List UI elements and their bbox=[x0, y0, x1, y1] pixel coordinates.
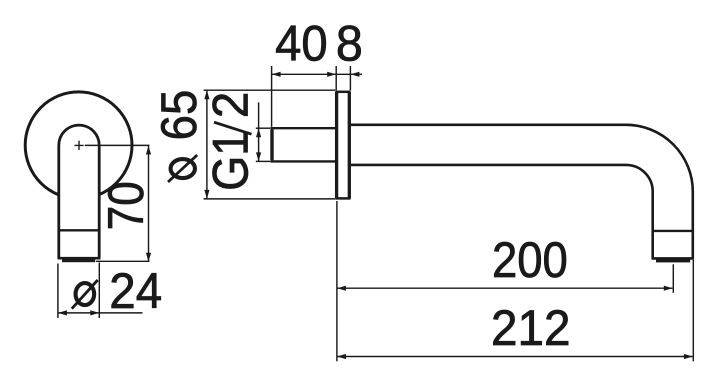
tube separation line side bbox=[653, 230, 693, 232]
dimension line 70 bbox=[148, 146, 150, 261]
svg-text:70: 70 bbox=[98, 181, 154, 230]
diameter symbol of 24 bbox=[76, 283, 95, 305]
extension line right of o24 dim bbox=[98, 263, 100, 319]
arrowhead G1/2 down bbox=[256, 152, 261, 161]
extension line 8 dim left bbox=[335, 66, 337, 90]
extension line o65 top bbox=[204, 89, 336, 91]
spout tube front view bbox=[59, 125, 99, 258]
arrowhead 212 right bbox=[684, 354, 693, 359]
extension line bottom of 70 dim bbox=[96, 260, 150, 262]
slash of G1/2 bbox=[214, 122, 252, 134]
wall flange side view bbox=[337, 92, 350, 199]
dimension line 40 and 8 bbox=[272, 73, 362, 75]
arrowhead 70 down bbox=[146, 253, 151, 262]
extension line 8 dim right bbox=[349, 66, 351, 90]
nipple top edge bbox=[270, 127, 335, 129]
extension line 200 right bbox=[672, 264, 674, 293]
threaded nipple side view bbox=[270, 129, 273, 160]
extension line G1/2 bottom bbox=[256, 160, 270, 162]
svg-text:212: 212 bbox=[491, 301, 570, 356]
extension line G1/2 top bbox=[256, 127, 270, 129]
dimension line 200 bbox=[337, 287, 673, 289]
extension line o65 bottom bbox=[204, 198, 336, 200]
spout tube side view top line and outer bend bbox=[351, 125, 693, 259]
dimension line o24 bbox=[58, 312, 143, 314]
svg-text:24: 24 bbox=[109, 264, 162, 319]
extension line 40 dim left bbox=[271, 66, 273, 127]
svg-text:G1: G1 bbox=[203, 131, 259, 191]
svg-text:200: 200 bbox=[492, 233, 568, 288]
center mark bbox=[74, 141, 83, 150]
tube separation line front bbox=[59, 229, 99, 231]
leader line from center bbox=[85, 144, 150, 146]
svg-text:65: 65 bbox=[152, 90, 207, 141]
svg-text:2: 2 bbox=[204, 92, 259, 118]
dimension line 212 bbox=[337, 356, 693, 358]
spout tube side view bottom line and inner bend bbox=[351, 165, 653, 259]
diameter symbol of 65 rotated bbox=[171, 159, 195, 178]
extension line left of o24 dim bbox=[57, 264, 59, 319]
arrowhead 200 left bbox=[337, 286, 346, 291]
extension line 200/212 left bbox=[336, 201, 338, 361]
tube bottom line front bbox=[58, 257, 101, 260]
dimension line o65 bbox=[206, 90, 208, 198]
arrowhead o24 right bbox=[90, 310, 99, 315]
arrowhead o24 left bbox=[58, 310, 67, 315]
arrowhead G1/2 up bbox=[256, 128, 261, 137]
arrowhead 8 right bbox=[351, 72, 360, 77]
flange circle front view bbox=[25, 92, 132, 199]
dimension line G1/2 bbox=[258, 102, 260, 161]
arrowhead 40 left bbox=[272, 72, 281, 77]
nipple bottom edge bbox=[270, 160, 335, 162]
arrowhead o65 up bbox=[204, 90, 209, 99]
aerator inset front bbox=[62, 259, 95, 262]
arrowhead o65 down bbox=[204, 190, 209, 199]
svg-text:40: 40 bbox=[275, 16, 328, 72]
arrowhead 70 up bbox=[146, 146, 151, 155]
arrowhead 40 right bbox=[327, 72, 336, 77]
svg-text:8: 8 bbox=[336, 16, 363, 72]
extension line 212 right bbox=[692, 260, 694, 362]
tube bottom line side bbox=[652, 257, 695, 260]
aerator inset side bbox=[656, 260, 690, 263]
arrowhead 200 right bbox=[664, 286, 673, 291]
arrowhead 212 left bbox=[337, 354, 346, 359]
